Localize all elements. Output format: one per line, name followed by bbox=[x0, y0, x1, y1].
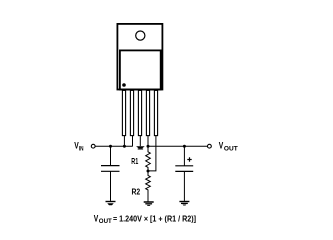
plus sign of output cap bbox=[187, 157, 191, 161]
svg-text:OUT: OUT bbox=[99, 218, 112, 225]
svg-text:R1: R1 bbox=[131, 156, 138, 166]
node: pin 1 junction bbox=[123, 145, 126, 148]
pin 1 bbox=[122, 90, 125, 146]
pin 3 bbox=[138, 90, 141, 146]
regulator U1 body bbox=[120, 50, 161, 89]
pin 5 bbox=[154, 90, 157, 135]
pin 2 bbox=[130, 90, 133, 146]
node: output cap junction bbox=[183, 145, 186, 148]
ground at output cap bbox=[179, 202, 189, 206]
svg-text:V: V bbox=[94, 214, 99, 224]
input wire VIN to pin 2 bbox=[95, 145, 133, 147]
output capacitor C2 bbox=[175, 146, 193, 201]
node: input cap junction bbox=[109, 145, 112, 148]
node: feedback junction R1/R2 bbox=[147, 170, 150, 173]
ground arrow at pin 3 bbox=[136, 146, 145, 149]
node: pin 4 junction bbox=[147, 145, 150, 148]
VIN label bbox=[74, 141, 84, 153]
VIN terminal bbox=[91, 144, 95, 148]
U1 pin-1 index dot bbox=[122, 83, 126, 87]
svg-text:OUT: OUT bbox=[224, 145, 238, 152]
output wire pin 4 to VOUT bbox=[148, 145, 208, 147]
ground at R2 bbox=[144, 202, 154, 206]
resistor R1 bbox=[146, 146, 151, 171]
pin 4 bbox=[146, 90, 149, 146]
VOUT label bbox=[219, 141, 238, 153]
svg-text:IN: IN bbox=[79, 145, 84, 152]
svg-text:V: V bbox=[219, 141, 224, 151]
regulator U1 package tab outline bbox=[117, 24, 162, 90]
formula VOUT = 1.240V x [1 + (R1 / R2)] bbox=[94, 214, 196, 226]
ground at input cap bbox=[106, 202, 116, 206]
svg-text:= 1.240V × [1 + (R1 / R2)]: = 1.240V × [1 + (R1 / R2)] bbox=[113, 214, 196, 224]
wire pin 5 to feedback node bbox=[148, 136, 156, 171]
resistor R2 bbox=[146, 171, 151, 202]
input capacitor C1 bbox=[101, 146, 120, 201]
svg-text:R2: R2 bbox=[132, 187, 141, 197]
U1 mounting hole bbox=[136, 31, 145, 40]
VOUT terminal bbox=[208, 144, 212, 148]
